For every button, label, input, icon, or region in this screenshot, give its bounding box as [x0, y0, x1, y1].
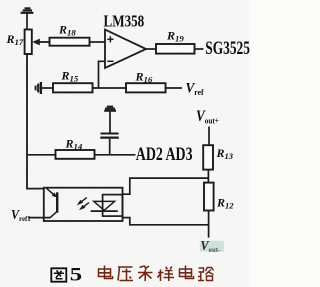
- ground (above capacitor): [104, 107, 116, 133]
- wire (inverting input stub down to R15/R16 node): [99, 61, 106, 88]
- digit 5: [70, 263, 82, 285]
- optocoupler box U2: [44, 188, 123, 221]
- glyph 压: [118, 267, 133, 281]
- svg-text:LM358: LM358: [104, 12, 145, 31]
- LED D (in optocoupler): [91, 195, 123, 217]
- ground (top of R17): [21, 8, 34, 29]
- wire (opto bottom-right pin to Vout- rail): [123, 218, 209, 225]
- transistor Q (photo-transistor in optocoupler): [47, 188, 58, 217]
- label Vref: [186, 80, 204, 97]
- wire (op-amp output): [146, 48, 156, 50]
- svg-text:SG3525: SG3525: [205, 37, 250, 59]
- ground (left of R15, sideways): [36, 82, 53, 94]
- label Vref1: [11, 206, 31, 223]
- resistor R18: [50, 38, 106, 46]
- light arrows (optocoupler): [77, 198, 89, 211]
- op-amp U1 LM358: [105, 30, 146, 68]
- glyph 电 (1): [99, 266, 113, 279]
- wire (emitter out to Vref1): [28, 217, 51, 219]
- glyph 采: [138, 266, 153, 282]
- glyph 路: [198, 267, 214, 281]
- label SG3525: [205, 37, 250, 59]
- potentiometer R17: [25, 30, 50, 55]
- resistor R15: [53, 83, 126, 92]
- label AD2 AD3: [136, 143, 193, 165]
- resistor R14: [56, 150, 136, 159]
- glyph 电 (2): [180, 266, 194, 279]
- capacitor C (AD2 AD3 filter): [100, 134, 119, 156]
- svg-text:5: 5: [70, 263, 82, 285]
- wire (left bus: R17 bottom down to optocoupler): [27, 54, 44, 189]
- label Vout+: [196, 108, 219, 126]
- node Vout- (highlighted): [200, 241, 224, 252]
- caption: 图 5 电压采样电路: [51, 263, 82, 285]
- glyph 样: [158, 267, 175, 282]
- resistor R13: [203, 145, 213, 182]
- resistor R16: [126, 83, 182, 92]
- label LM358: [104, 12, 145, 31]
- resistor R12: [204, 183, 214, 238]
- svg-text:AD2 AD3: AD2 AD3: [136, 143, 193, 165]
- resistor R19: [156, 44, 204, 54]
- wire (R14 row from left bus): [27, 154, 56, 156]
- glyph 图: [51, 268, 66, 281]
- wire (opto top-right pin to R13/R12 node): [123, 178, 209, 194]
- wire (Vout+ down to R13): [208, 127, 210, 146]
